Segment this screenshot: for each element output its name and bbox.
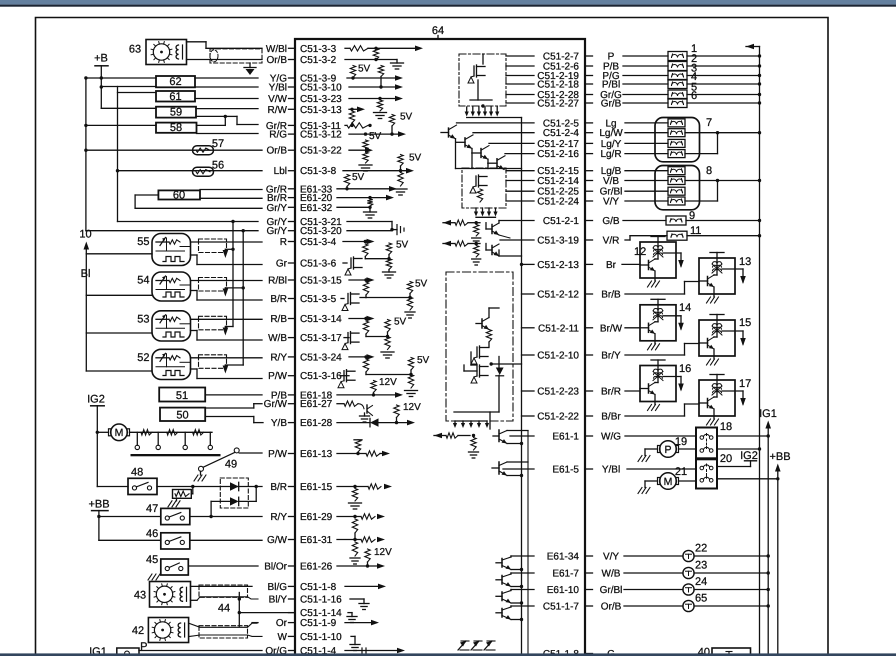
svg-text:+BB: +BB	[769, 451, 790, 463]
svg-text:C51-2-4: C51-2-4	[543, 128, 580, 139]
svg-text:55: 55	[137, 236, 149, 248]
svg-text:C51-2-18: C51-2-18	[537, 80, 579, 91]
svg-text:5V: 5V	[409, 153, 422, 164]
svg-text:P: P	[664, 444, 671, 456]
svg-text:Br/W: Br/W	[600, 323, 623, 334]
svg-text:R/Y: R/Y	[270, 352, 287, 363]
internal row C51-1-4	[345, 648, 405, 654]
internal row C51-2-1 driver	[443, 220, 534, 244]
svg-text:12V: 12V	[374, 547, 392, 558]
internal 5V row C51-3-11/12	[345, 112, 413, 137]
svg-text:C51-3-5: C51-3-5	[300, 294, 337, 305]
relay 45	[146, 554, 258, 580]
svg-text:C51-3-17: C51-3-17	[300, 333, 342, 344]
svg-text:Or: Or	[276, 618, 288, 629]
svg-text:R/Y: R/Y	[270, 512, 287, 523]
svg-text:C51-3-16: C51-3-16	[300, 371, 342, 382]
svg-text:15: 15	[739, 317, 751, 329]
internal 5V pull-ups rows C51-3-9/10	[347, 64, 403, 119]
svg-text:R/Bl: R/Bl	[268, 276, 287, 287]
svg-text:C51-2-24: C51-2-24	[537, 197, 579, 208]
svg-text:46: 46	[146, 528, 158, 540]
svg-text:Gr/Y: Gr/Y	[266, 203, 287, 214]
Gr/Y shield feed bus V2	[223, 229, 245, 374]
internal thyristor symbols bottom	[458, 641, 495, 650]
svg-text:51: 51	[176, 390, 188, 402]
svg-text:49: 49	[225, 459, 237, 471]
resistor 56 oval	[193, 160, 263, 177]
ignition coil pack 7	[625, 117, 761, 162]
internal row E61-33 with 5V	[337, 172, 397, 192]
svg-text:E61-5: E61-5	[552, 465, 579, 476]
svg-text:C51-3-14: C51-3-14	[300, 314, 342, 325]
internal row C51-1-8 arrow	[345, 584, 386, 590]
svg-text:Y/Bl: Y/Bl	[269, 83, 287, 94]
node 10 with up arrow on Bl bus	[79, 229, 91, 372]
svg-text:+B: +B	[94, 53, 108, 65]
svg-text:W/B: W/B	[602, 569, 621, 580]
svg-text:E61-27: E61-27	[300, 399, 333, 410]
svg-text:B/R: B/R	[270, 482, 287, 493]
resistor box by relay 48	[168, 485, 195, 507]
svg-text:R/B: R/B	[270, 314, 287, 325]
relay 48	[97, 467, 262, 495]
svg-text:P/W: P/W	[268, 449, 287, 460]
igniter box 15	[625, 315, 751, 366]
svg-text:43: 43	[134, 590, 146, 602]
row stubs from module to right pins 2-12..2-22	[522, 294, 535, 416]
resistor 58	[156, 122, 258, 134]
top window chrome bar	[0, 0, 896, 7]
svg-text:50: 50	[176, 410, 188, 422]
component 51	[159, 388, 262, 403]
internal circuit row C51-3-3	[345, 46, 423, 62]
igniter box 17	[625, 375, 751, 426]
internal row E61-26	[337, 563, 385, 569]
svg-text:Gr/Y: Gr/Y	[266, 226, 287, 237]
right supply bus with arrow	[746, 44, 760, 656]
svg-text:G/B: G/B	[602, 216, 620, 227]
relay 18	[625, 421, 770, 458]
svg-text:44: 44	[218, 603, 230, 615]
internal rows C51-3-21/20 joined to ground	[347, 222, 404, 235]
svg-text:E61-15: E61-15	[300, 482, 333, 493]
svg-text:C51-2-12: C51-2-12	[537, 290, 579, 301]
svg-text:Bl/G: Bl/G	[268, 582, 288, 593]
svg-text:C51-2-22: C51-2-22	[537, 412, 579, 423]
O2 sensor 54	[86, 272, 262, 301]
svg-text:58: 58	[170, 122, 182, 134]
IG1 bus right	[759, 408, 777, 656]
svg-text:W/B: W/B	[268, 333, 287, 344]
injectors 1-6	[623, 43, 761, 108]
svg-text:C51-3-22: C51-3-22	[300, 146, 342, 157]
internal big dash-dot power module	[446, 272, 522, 429]
svg-text:R: R	[280, 237, 287, 248]
relay 46	[146, 528, 262, 549]
svg-text:W/G: W/G	[601, 432, 621, 443]
svg-text:16: 16	[679, 363, 691, 375]
resistor 61	[156, 91, 258, 103]
svg-text:22: 22	[695, 543, 707, 555]
svg-text:63: 63	[129, 44, 141, 56]
svg-text:C51-1-10: C51-1-10	[300, 632, 342, 643]
svg-text:19: 19	[675, 436, 687, 448]
svg-text:Bl: Bl	[81, 268, 91, 280]
internal row E61-13 resistor network	[337, 440, 390, 457]
wiper 49 with slider	[194, 448, 262, 481]
internal second vertical bus	[527, 431, 529, 656]
Gr/Y shield feed bus V1	[223, 220, 235, 336]
component 9	[623, 210, 761, 225]
internal row C51-3-17 mosfet	[342, 332, 359, 350]
svg-text:61: 61	[169, 91, 181, 103]
junction 44 bus	[218, 593, 295, 627]
svg-text:5V: 5V	[352, 172, 365, 183]
resistor 59	[156, 107, 258, 126]
svg-text:V/R: V/R	[603, 236, 620, 247]
svg-text:C51-1-9: C51-1-9	[300, 618, 337, 629]
power symbol IG1 left with P box	[89, 641, 262, 656]
internal row E61-31	[337, 537, 392, 568]
svg-text:10: 10	[79, 229, 91, 241]
svg-text:45: 45	[146, 554, 158, 566]
svg-text:C51-2-27: C51-2-27	[537, 99, 579, 110]
bottom window chrome bar	[0, 653, 896, 656]
svg-text:E61-1: E61-1	[552, 432, 579, 443]
component 60	[135, 189, 262, 208]
svg-text:E61-10: E61-10	[547, 585, 580, 596]
throttle motor M with resistor ladder	[97, 424, 220, 456]
svg-text:Y/Bl: Y/Bl	[602, 465, 620, 476]
internal dash-dot module lower	[462, 168, 534, 208]
internal dash-dot module upper	[459, 54, 534, 108]
svg-text:21: 21	[675, 466, 687, 478]
svg-text:Or/B: Or/B	[266, 146, 287, 157]
internal low-side transistors E61-34 E61-7 E61-10 C51-1-7	[496, 556, 534, 621]
svg-text:IG2: IG2	[87, 394, 105, 406]
svg-text:5V: 5V	[417, 355, 430, 366]
shield for sensor 63 wires	[210, 49, 262, 75]
internal row C51-3-13	[349, 107, 365, 128]
svg-text:C51-3-2: C51-3-2	[300, 55, 337, 66]
+BB bus right	[769, 451, 790, 656]
svg-text:Bl/Y: Bl/Y	[269, 595, 288, 606]
svg-text:C51-3-15: C51-3-15	[300, 276, 342, 287]
sensors 22 23 24 65	[624, 543, 770, 612]
svg-text:V/B: V/B	[603, 176, 619, 187]
internal circuit row C51-3-2 ground	[345, 60, 404, 70]
svg-text:54: 54	[137, 275, 149, 287]
internal row C51-3-19 driver	[443, 240, 534, 265]
internal row C51-3-24 with 5V	[349, 354, 430, 396]
svg-text:IG2: IG2	[740, 450, 758, 462]
internal row C51-1-9 arrow	[345, 620, 379, 626]
svg-text:Br/Y: Br/Y	[601, 351, 621, 362]
svg-text:C51-3-3: C51-3-3	[300, 44, 337, 55]
svg-text:C51-3-4: C51-3-4	[300, 237, 337, 248]
internal row C51-3-16 mosfet	[338, 370, 355, 388]
svg-text:C51-1-7: C51-1-7	[543, 602, 580, 613]
svg-text:Br: Br	[606, 260, 617, 271]
svg-text:P: P	[140, 641, 147, 653]
svg-text:P/W: P/W	[268, 371, 287, 382]
svg-text:6: 6	[691, 90, 697, 102]
svg-text:48: 48	[131, 467, 143, 479]
sensor 42	[132, 618, 262, 643]
svg-text:Gr: Gr	[276, 259, 288, 270]
igniter box 16	[625, 360, 691, 411]
svg-text:V/W: V/W	[268, 94, 287, 105]
svg-text:C51-3-24: C51-3-24	[300, 352, 342, 363]
svg-text:59: 59	[170, 107, 182, 119]
internal row E61-20 and E61-32 ground chain	[337, 195, 394, 218]
svg-text:14: 14	[679, 302, 691, 314]
svg-text:B/R: B/R	[270, 294, 287, 305]
svg-text:Or/B: Or/B	[266, 55, 287, 66]
internal row E61-15	[337, 484, 392, 509]
svg-text:12V: 12V	[379, 377, 397, 388]
svg-text:65: 65	[695, 593, 707, 605]
O2 sensor 52	[86, 349, 262, 379]
svg-text:B/Br: B/Br	[601, 412, 621, 423]
ignition coil pack 8	[625, 165, 761, 210]
svg-text:5V: 5V	[358, 64, 371, 75]
svg-text:Br/B: Br/B	[601, 290, 621, 301]
svg-text:Or/B: Or/B	[601, 602, 622, 613]
power symbol +BB left	[88, 499, 160, 541]
svg-text:5V: 5V	[415, 279, 428, 290]
internal row C51-3-22 with 5V	[349, 131, 382, 171]
svg-text:60: 60	[173, 189, 185, 201]
sensor 43	[134, 582, 258, 608]
svg-text:C51-2-11: C51-2-11	[538, 323, 579, 334]
svg-text:C51-3-23: C51-3-23	[300, 94, 342, 105]
svg-text:53: 53	[137, 313, 149, 325]
svg-text:5V: 5V	[396, 240, 409, 251]
svg-text:C51-1-8: C51-1-8	[300, 582, 337, 593]
svg-text:C51-2-14: C51-2-14	[537, 176, 579, 187]
svg-text:C51-2-23: C51-2-23	[537, 387, 579, 398]
internal row E61-27 transistor	[337, 401, 421, 424]
internal row C51-3-4 with 5V divider	[343, 239, 409, 278]
svg-text:M: M	[664, 476, 673, 488]
relay 47	[146, 503, 262, 525]
svg-text:E61-28: E61-28	[300, 418, 333, 429]
svg-text:5V: 5V	[394, 317, 407, 328]
pump motor 19	[638, 436, 696, 462]
svg-text:V/Y: V/Y	[603, 552, 619, 563]
relay 20	[627, 450, 780, 489]
svg-text:E61-31: E61-31	[300, 535, 333, 546]
ECU right pin labels and stubs	[537, 52, 623, 656]
igniter box 14	[625, 299, 691, 350]
component 11	[625, 225, 761, 240]
fan motor 21	[638, 466, 696, 494]
svg-text:C51-3-19: C51-3-19	[537, 236, 579, 247]
left bus A from Y/G down to C51-3-20 row	[84, 76, 258, 230]
internal row E61-5 driver	[492, 462, 534, 477]
svg-text:G/W: G/W	[267, 535, 288, 546]
internal row C51-1-10 ground	[350, 636, 360, 650]
svg-text:Lg/R: Lg/R	[600, 149, 621, 160]
internal row C51-3-5 mosfet	[341, 293, 366, 311]
svg-text:18: 18	[720, 421, 732, 433]
ECU box 64	[295, 25, 585, 656]
svg-text:13: 13	[739, 256, 751, 268]
arrow row under power module	[453, 421, 489, 428]
svg-text:C51-1-16: C51-1-16	[300, 595, 342, 606]
ECU left pin labels and stubs	[264, 44, 342, 656]
arrow row under lower module	[474, 208, 498, 217]
internal row E61-1 driver	[434, 430, 534, 458]
O2 sensor 55	[86, 234, 262, 266]
internal vertical bus	[520, 118, 534, 656]
svg-text:Gr/Bl: Gr/Bl	[600, 585, 623, 596]
svg-text:V/Y: V/Y	[603, 197, 619, 208]
svg-text:C51-3-12: C51-3-12	[300, 130, 342, 141]
svg-text:C51-3-10: C51-3-10	[300, 83, 342, 94]
O2 sensor 53	[86, 311, 262, 341]
svg-text:W: W	[278, 632, 288, 643]
component 50	[160, 404, 263, 423]
svg-text:C51-3-20: C51-3-20	[300, 226, 342, 237]
svg-text:C51-2-10: C51-2-10	[537, 351, 579, 362]
svg-text:Y/B: Y/B	[271, 418, 287, 429]
svg-text:W/Bl: W/Bl	[266, 44, 287, 55]
svg-text:C51-2-13: C51-2-13	[537, 260, 579, 271]
svg-text:Gr/W: Gr/W	[264, 399, 288, 410]
svg-text:Lg/W: Lg/W	[599, 128, 623, 139]
svg-text:Br/R: Br/R	[601, 387, 621, 398]
svg-text:E61-7: E61-7	[552, 569, 579, 580]
svg-text:24: 24	[695, 576, 707, 588]
svg-text:P/Bl: P/Bl	[602, 80, 620, 91]
svg-text:7: 7	[706, 117, 712, 129]
svg-text:IG1: IG1	[759, 408, 777, 420]
internal row E61-28 diode	[337, 418, 415, 426]
svg-text:C51-3-6: C51-3-6	[300, 259, 337, 270]
svg-text:42: 42	[132, 625, 144, 637]
svg-text:R/W: R/W	[268, 105, 288, 116]
diode box dashed	[209, 478, 258, 518]
svg-text:E61-32: E61-32	[300, 203, 333, 214]
internal row C51-3-14 with 5V	[349, 316, 407, 358]
svg-text:C51-2-16: C51-2-16	[537, 149, 579, 160]
igniter box 12	[622, 237, 684, 288]
internal row C51-1-14 ground	[347, 613, 357, 623]
internal row C51-3-15 with 5V	[349, 277, 428, 318]
svg-text:M: M	[115, 427, 124, 439]
resistor 62	[156, 76, 258, 88]
svg-text:52: 52	[137, 352, 149, 364]
internal transistor array for ignition rows	[441, 123, 534, 169]
svg-text:62: 62	[169, 76, 181, 88]
sensor 63 crank sensor	[129, 40, 262, 65]
svg-text:E61-26: E61-26	[300, 562, 333, 573]
svg-text:E61-29: E61-29	[300, 512, 333, 523]
svg-text:Lbl: Lbl	[274, 166, 287, 177]
svg-text:C51-3-8: C51-3-8	[300, 166, 337, 177]
svg-text:5V: 5V	[369, 131, 382, 142]
svg-text:C51-3-13: C51-3-13	[300, 105, 342, 116]
svg-text:17: 17	[739, 378, 751, 390]
svg-text:47: 47	[146, 503, 158, 515]
svg-text:Gr/B: Gr/B	[601, 99, 622, 110]
svg-text:C51-2-1: C51-2-1	[543, 216, 580, 227]
internal row C51-1-16 ground	[350, 599, 369, 610]
internal row C51-3-8 with 5V pullup	[343, 153, 422, 196]
svg-text:12V: 12V	[403, 402, 421, 413]
igniter box 13	[625, 253, 751, 304]
internal row E61-18 with 12V	[337, 377, 403, 398]
power symbol IG2 left	[87, 394, 105, 487]
arrow row under upper module	[465, 107, 522, 118]
svg-text:E61-34: E61-34	[547, 552, 580, 563]
svg-text:20: 20	[720, 453, 732, 465]
svg-text:12: 12	[634, 246, 646, 258]
internal row C51-3-6 mosfet	[343, 257, 362, 275]
internal row E61-29	[337, 514, 385, 540]
svg-text:8: 8	[706, 165, 712, 177]
component 40	[698, 647, 751, 656]
power symbol +B	[94, 53, 156, 109]
resistor 57 oval	[193, 138, 263, 155]
svg-text:R/G: R/G	[269, 130, 287, 141]
svg-text:+BB: +BB	[88, 499, 109, 511]
svg-text:23: 23	[695, 560, 707, 572]
svg-text:Bl/Or: Bl/Or	[264, 562, 287, 573]
svg-text:5V: 5V	[400, 112, 413, 123]
left bus B from Y/Bl down to C51-3-21 row	[101, 87, 258, 222]
svg-text:E61-13: E61-13	[300, 449, 333, 460]
